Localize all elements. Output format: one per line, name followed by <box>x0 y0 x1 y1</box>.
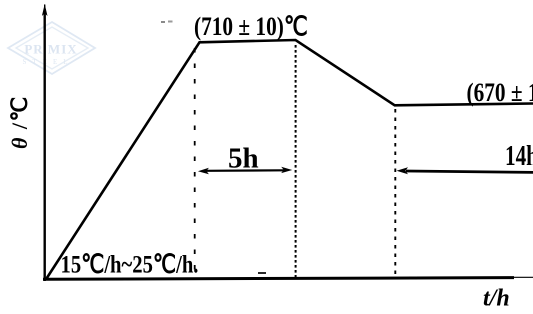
svg-text:14h: 14h <box>505 140 533 172</box>
svg-text:(670 ± 10)℃: (670 ± 10)℃ <box>467 79 533 107</box>
svg-text:5h: 5h <box>228 143 259 175</box>
svg-text:PR MIX: PR MIX <box>24 42 77 57</box>
svg-text:STEEL: STEEL <box>23 58 74 66</box>
svg-text:(710 ± 10)℃: (710 ± 10)℃ <box>194 13 308 41</box>
svg-text:θ /℃: θ /℃ <box>7 95 32 149</box>
svg-text:t/h: t/h <box>483 286 510 312</box>
svg-text:15℃/h~25℃/h.: 15℃/h~25℃/h. <box>61 251 199 280</box>
